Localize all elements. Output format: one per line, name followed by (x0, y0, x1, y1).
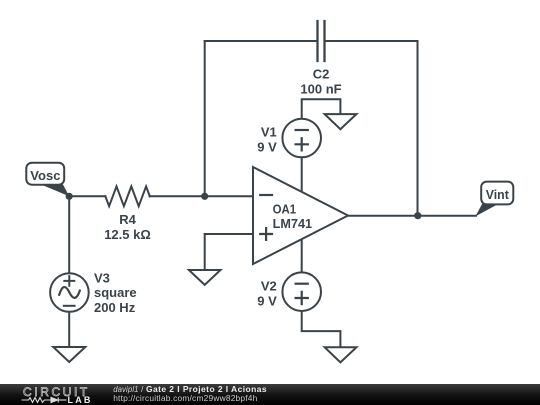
node flag Vosc wedge (42, 185, 69, 197)
svg-text:V3: V3 (94, 270, 110, 285)
svg-text:square: square (94, 285, 137, 300)
V1 minus marker (296, 129, 308, 131)
V3 plus marker (64, 276, 74, 286)
V3 minus marker (64, 305, 75, 307)
svg-text:Vosc: Vosc (30, 168, 60, 183)
svg-text:OA1: OA1 (273, 202, 297, 217)
node junction inverting/feedback (201, 193, 208, 200)
ground for V1 (325, 114, 357, 129)
wire op-amp non-inverting input (205, 233, 253, 235)
wire feedback right riser (417, 41, 419, 216)
wire V3 to ground (68, 312, 70, 347)
V2 plus marker (296, 292, 308, 304)
svg-text:100 nF: 100 nF (300, 81, 341, 96)
svg-text:V1: V1 (261, 124, 277, 139)
wire feedback left riser (204, 41, 206, 196)
svg-text:9 V: 9 V (257, 139, 277, 154)
svg-text:V2: V2 (261, 279, 277, 294)
svg-text:LM741: LM741 (273, 216, 313, 231)
op-amp U OA1 triangle (253, 167, 348, 264)
wire V2 bottom to ground (302, 311, 341, 347)
wire Vosc node to R4 (69, 195, 105, 197)
wire R4 to op-amp inverting input (150, 195, 254, 197)
svg-text:Vint: Vint (486, 187, 510, 202)
node flag Vosc box (26, 163, 64, 185)
node junction output/feedback (414, 212, 421, 219)
CircuitLab logo mark (resistor + diode) (14, 394, 84, 405)
wire Vosc node down to V3 (68, 196, 70, 273)
node flag Vint box (481, 182, 513, 205)
resistor R4 (105, 186, 149, 206)
svg-text:12.5 kΩ: 12.5 kΩ (104, 227, 151, 242)
CircuitLab logo LAB (68, 395, 93, 405)
CircuitLab logo word (23, 385, 90, 399)
footer title line (113, 384, 267, 394)
V1 plus marker (296, 138, 308, 150)
footer url line (113, 393, 257, 403)
op-amp non-inverting marker (260, 228, 272, 240)
voltage source V1 circle (282, 119, 321, 158)
wire top left to C2 (205, 40, 318, 42)
svg-text:9 V: 9 V (257, 294, 277, 309)
node flag Vint wedge (475, 204, 497, 217)
svg-text:C2: C2 (313, 67, 330, 82)
voltage source V2 circle (282, 272, 321, 311)
V3 sine symbol (59, 287, 80, 298)
svg-text:200 Hz: 200 Hz (94, 300, 136, 315)
wire op-amp V- pin to V2 top (301, 240, 303, 273)
wire C2 to top right (325, 40, 418, 42)
ground for non-inverting input (189, 270, 221, 285)
footer bar (0, 384, 540, 405)
voltage source V3 circle (50, 273, 89, 312)
wire V1 bottom to op-amp V+ pin (301, 157, 303, 191)
ground for V3 (53, 347, 85, 362)
wire op-amp output (348, 215, 476, 217)
wire V1 top to ground (302, 99, 341, 119)
V2 minus marker (296, 283, 308, 285)
node junction Vosc (66, 193, 73, 200)
capacitor C2 (318, 21, 325, 61)
wire non-inverting input down to ground (204, 234, 206, 270)
svg-text:R4: R4 (119, 212, 136, 227)
ground for V2 (325, 347, 357, 362)
op-amp inverting marker (260, 194, 272, 196)
